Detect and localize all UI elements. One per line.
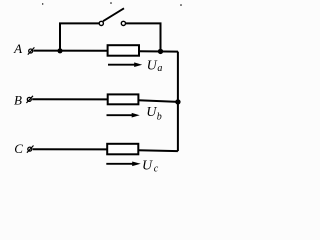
- svg-text:U: U: [147, 58, 158, 73]
- svg-text:A: A: [13, 41, 22, 56]
- svg-text:U: U: [142, 159, 153, 174]
- svg-text:b: b: [157, 112, 162, 123]
- svg-text:c: c: [154, 163, 159, 174]
- svg-text:C: C: [14, 141, 23, 156]
- svg-text:a: a: [157, 63, 162, 74]
- svg-text:B: B: [14, 93, 22, 108]
- svg-text:U: U: [146, 105, 157, 120]
